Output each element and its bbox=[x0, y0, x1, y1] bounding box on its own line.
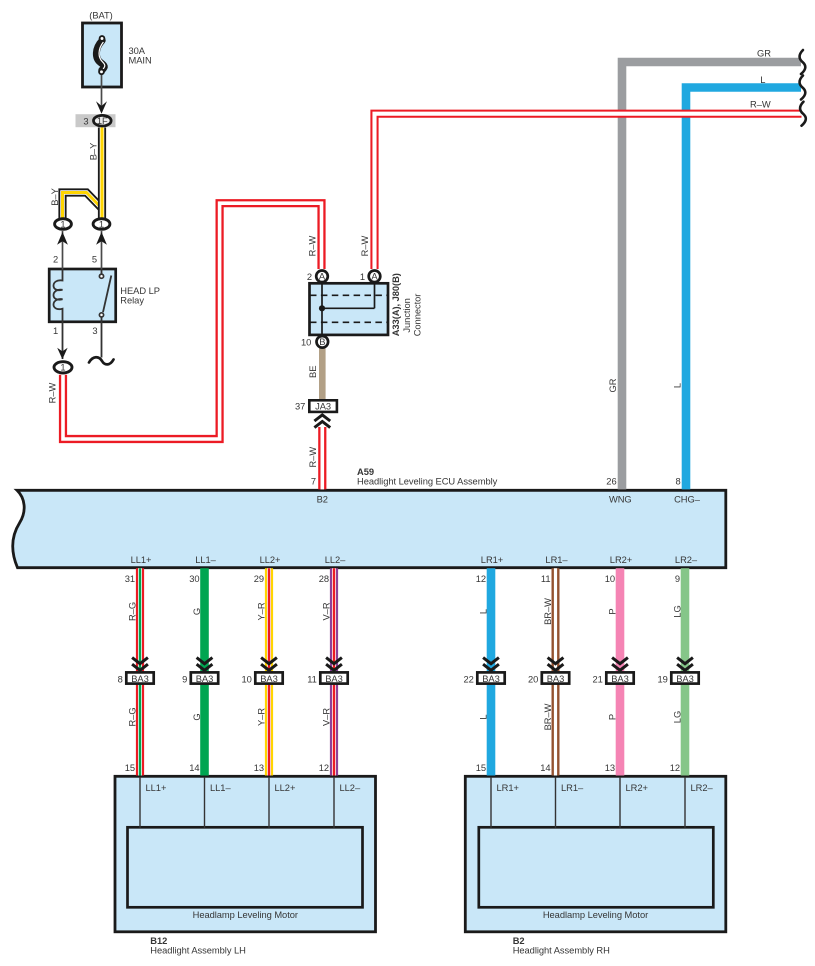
svg-text:R–G: R–G bbox=[128, 707, 138, 726]
svg-text:A: A bbox=[371, 272, 378, 282]
svg-text:P: P bbox=[608, 714, 618, 720]
svg-text:Connector: Connector bbox=[412, 294, 422, 337]
gray tag behind 1F bbox=[76, 114, 116, 127]
wire B-Y main 1F to connector 1 bbox=[98, 128, 106, 219]
wire Y-R ECU pin 29 to LH pin 13 bbox=[265, 568, 273, 775]
break squiggle L bbox=[800, 76, 806, 100]
wire L ECU pin 12 to RH pin 15 bbox=[487, 568, 496, 775]
arrow down into oval below relay bbox=[57, 348, 67, 359]
svg-text:31: 31 bbox=[125, 574, 135, 584]
wire R-W relay connector 1 to junction pin 2 bbox=[63, 203, 322, 439]
svg-text:Y–R: Y–R bbox=[257, 708, 267, 726]
wire L from ECU pin 8 to top right bbox=[686, 88, 801, 490]
wire GR from ECU pin 26 to top right bbox=[622, 62, 801, 489]
wire BE junction pin B to JA3 bbox=[319, 349, 326, 400]
svg-text:15: 15 bbox=[476, 763, 486, 773]
svg-text:LL1–: LL1– bbox=[210, 783, 231, 793]
chevrons down and BA3 connector boxes row bbox=[132, 658, 693, 671]
headlight assembly LH box B12 bbox=[115, 776, 376, 932]
svg-text:B2: B2 bbox=[317, 495, 328, 505]
svg-text:12: 12 bbox=[319, 763, 329, 773]
wire V-R ECU pin 28 to LH pin 12 bbox=[330, 568, 338, 775]
connector JA3 box bbox=[309, 400, 337, 412]
arrow up into right connector 1 bbox=[96, 232, 107, 245]
svg-text:12: 12 bbox=[670, 763, 680, 773]
relay switch blade and pin3 lead bbox=[102, 269, 112, 358]
svg-text:Headlamp Leveling Motor: Headlamp Leveling Motor bbox=[193, 910, 298, 920]
connector oval 1 left bbox=[55, 219, 72, 230]
svg-text:R–W: R–W bbox=[360, 235, 370, 256]
internal pin stub lines LH box bbox=[140, 777, 334, 828]
svg-text:LR1–: LR1– bbox=[561, 783, 584, 793]
svg-text:BA3: BA3 bbox=[611, 674, 629, 684]
svg-text:8: 8 bbox=[118, 674, 123, 684]
svg-text:P: P bbox=[608, 608, 618, 614]
svg-text:2: 2 bbox=[53, 254, 58, 264]
svg-text:10: 10 bbox=[301, 337, 311, 347]
junction connector box A33(A) J80(B) bbox=[310, 283, 389, 335]
svg-text:V–R: V–R bbox=[322, 708, 332, 726]
svg-text:LR2+: LR2+ bbox=[626, 783, 648, 793]
svg-text:Y–R: Y–R bbox=[257, 602, 267, 620]
connector oval 1 below relay bbox=[54, 362, 72, 373]
arrow up into left connector 1 bbox=[57, 232, 68, 245]
svg-text:LL2+: LL2+ bbox=[260, 555, 281, 565]
wire G ECU pin 30 to LH pin 14 bbox=[200, 568, 209, 775]
svg-text:9: 9 bbox=[675, 574, 680, 584]
svg-text:3: 3 bbox=[83, 116, 88, 126]
svg-text:Headlight Assembly RH: Headlight Assembly RH bbox=[513, 945, 610, 955]
svg-text:G: G bbox=[192, 713, 202, 720]
svg-text:BA3: BA3 bbox=[547, 674, 565, 684]
svg-text:8: 8 bbox=[675, 477, 680, 487]
svg-text:BA3: BA3 bbox=[482, 674, 500, 684]
svg-text:11: 11 bbox=[541, 574, 551, 584]
wire P ECU pin 10 to RH pin 13 bbox=[616, 568, 625, 775]
svg-text:R–W: R–W bbox=[308, 235, 318, 256]
svg-text:15: 15 bbox=[125, 763, 135, 773]
svg-text:LL2–: LL2– bbox=[340, 783, 361, 793]
svg-text:14: 14 bbox=[189, 763, 199, 773]
svg-text:1F: 1F bbox=[97, 116, 108, 126]
svg-text:BR–W: BR–W bbox=[543, 598, 553, 625]
svg-text:19: 19 bbox=[658, 674, 668, 684]
svg-text:1: 1 bbox=[360, 272, 365, 282]
connector circle A pin 2 bbox=[316, 271, 328, 283]
svg-text:2: 2 bbox=[307, 272, 312, 282]
svg-text:LG: LG bbox=[673, 605, 683, 617]
svg-text:30A: 30A bbox=[129, 46, 146, 56]
svg-text:L: L bbox=[479, 609, 489, 614]
svg-text:11: 11 bbox=[307, 674, 317, 684]
connector circle A pin 1 bbox=[369, 271, 381, 283]
svg-text:20: 20 bbox=[528, 674, 538, 684]
svg-text:LR1+: LR1+ bbox=[497, 783, 519, 793]
svg-text:LL1+: LL1+ bbox=[131, 555, 152, 565]
svg-text:(BAT): (BAT) bbox=[89, 10, 112, 20]
headlight assembly RH box B2 bbox=[465, 776, 726, 932]
svg-text:30: 30 bbox=[189, 574, 199, 584]
svg-text:BA3: BA3 bbox=[260, 674, 278, 684]
svg-text:13: 13 bbox=[605, 763, 615, 773]
relay switch contact circles bbox=[99, 274, 103, 278]
svg-text:28: 28 bbox=[319, 574, 329, 584]
svg-text:LR2+: LR2+ bbox=[610, 555, 632, 565]
svg-text:3: 3 bbox=[92, 326, 97, 336]
svg-text:26: 26 bbox=[606, 477, 616, 487]
svg-text:B–Y: B–Y bbox=[50, 187, 60, 205]
svg-text:B–Y: B–Y bbox=[88, 142, 98, 160]
svg-text:LR1–: LR1– bbox=[545, 555, 568, 565]
svg-text:B: B bbox=[319, 337, 325, 347]
wire B-Y branch to left connector 1 bbox=[63, 193, 102, 220]
ECU A59 band bbox=[13, 490, 726, 567]
svg-text:13: 13 bbox=[254, 763, 264, 773]
headlamp leveling motor RH inner box bbox=[479, 827, 714, 907]
fuse element glyph bbox=[96, 36, 104, 74]
wire thin: fuse output to 1F bbox=[101, 75, 103, 113]
svg-text:CHG–: CHG– bbox=[674, 495, 701, 505]
svg-text:10: 10 bbox=[605, 574, 615, 584]
wire BR-W ECU pin 11 to RH pin 14 bbox=[552, 568, 560, 775]
wire thin: connector 1 to relay pin 2 bbox=[62, 231, 64, 269]
internal pin stub lines RH box bbox=[491, 777, 685, 828]
svg-text:BE: BE bbox=[308, 366, 318, 378]
relay box HEAD LP bbox=[49, 269, 116, 322]
svg-text:1: 1 bbox=[60, 363, 65, 373]
chevron up into JA3 bbox=[314, 415, 330, 428]
svg-text:Junction: Junction bbox=[402, 298, 412, 332]
svg-text:WNG: WNG bbox=[609, 495, 632, 505]
svg-text:L: L bbox=[760, 75, 765, 85]
svg-text:12: 12 bbox=[476, 574, 486, 584]
svg-text:A33(A), J80(B): A33(A), J80(B) bbox=[391, 273, 401, 336]
svg-text:37: 37 bbox=[295, 402, 305, 412]
svg-text:R–W: R–W bbox=[308, 447, 318, 468]
svg-text:JA3: JA3 bbox=[315, 402, 331, 412]
svg-text:BA3: BA3 bbox=[676, 674, 694, 684]
svg-text:Headlamp Leveling Motor: Headlamp Leveling Motor bbox=[543, 910, 648, 920]
wire thin: connector 1 to relay pin 5 bbox=[101, 231, 103, 269]
wire R-W junction pin 1 to top right bbox=[375, 114, 802, 269]
svg-text:1: 1 bbox=[99, 219, 104, 229]
fuse 30A MAIN box bbox=[83, 23, 122, 87]
svg-text:10: 10 bbox=[242, 674, 252, 684]
connector BA3 boxes bbox=[126, 672, 698, 683]
svg-text:MAIN: MAIN bbox=[129, 56, 152, 66]
relay coil and pin1 lead bbox=[54, 269, 63, 359]
wire R-W JA3 to ECU pin 7 bbox=[318, 427, 326, 489]
svg-text:A: A bbox=[319, 272, 326, 282]
svg-text:LR1+: LR1+ bbox=[481, 555, 503, 565]
svg-text:GR: GR bbox=[757, 48, 771, 58]
connector oval 1 right bbox=[93, 219, 110, 230]
svg-text:14: 14 bbox=[540, 763, 550, 773]
svg-text:Headlight Assembly LH: Headlight Assembly LH bbox=[150, 945, 246, 955]
svg-text:LL1–: LL1– bbox=[195, 555, 216, 565]
svg-text:5: 5 bbox=[92, 254, 97, 264]
svg-text:LL1+: LL1+ bbox=[146, 783, 167, 793]
svg-text:BR–W: BR–W bbox=[543, 703, 553, 730]
svg-text:L: L bbox=[479, 714, 489, 719]
svg-text:29: 29 bbox=[254, 574, 264, 584]
svg-text:LR2–: LR2– bbox=[675, 555, 698, 565]
svg-text:1: 1 bbox=[60, 219, 65, 229]
svg-text:R–G: R–G bbox=[128, 602, 138, 621]
connector oval 1F bbox=[94, 115, 112, 126]
arrow down into 1F bbox=[96, 101, 107, 114]
svg-text:V–R: V–R bbox=[322, 602, 332, 620]
svg-text:BA3: BA3 bbox=[196, 674, 214, 684]
wire R-G ECU pin 31 to LH pin 15 bbox=[136, 568, 144, 775]
headlamp leveling motor LH inner box bbox=[128, 827, 363, 907]
svg-text:R–W: R–W bbox=[47, 382, 57, 403]
wire LG ECU pin 9 to RH pin 12 bbox=[681, 568, 690, 775]
svg-text:1: 1 bbox=[53, 326, 58, 336]
svg-text:GR: GR bbox=[608, 378, 618, 392]
svg-text:7: 7 bbox=[311, 477, 316, 487]
svg-text:L: L bbox=[672, 383, 682, 388]
connector circle B pin 10 bbox=[317, 336, 329, 348]
svg-text:LL2+: LL2+ bbox=[275, 783, 296, 793]
break squiggle GR bbox=[800, 50, 806, 74]
svg-text:HEAD LP: HEAD LP bbox=[120, 286, 160, 296]
svg-text:R–W: R–W bbox=[750, 99, 771, 109]
svg-text:BA3: BA3 bbox=[131, 674, 149, 684]
break squiggle R-W bbox=[800, 102, 806, 126]
svg-text:BA3: BA3 bbox=[325, 674, 343, 684]
svg-text:LG: LG bbox=[673, 711, 683, 723]
svg-text:LL2–: LL2– bbox=[325, 555, 346, 565]
tilde continuation below relay pin 3 bbox=[89, 357, 114, 364]
svg-text:Headlight Leveling ECU Assembl: Headlight Leveling ECU Assembly bbox=[357, 476, 498, 486]
svg-text:9: 9 bbox=[182, 674, 187, 684]
svg-text:G: G bbox=[192, 608, 202, 615]
svg-text:Relay: Relay bbox=[120, 296, 144, 306]
svg-text:22: 22 bbox=[464, 674, 474, 684]
svg-text:LR2–: LR2– bbox=[691, 783, 714, 793]
svg-text:21: 21 bbox=[593, 674, 603, 684]
